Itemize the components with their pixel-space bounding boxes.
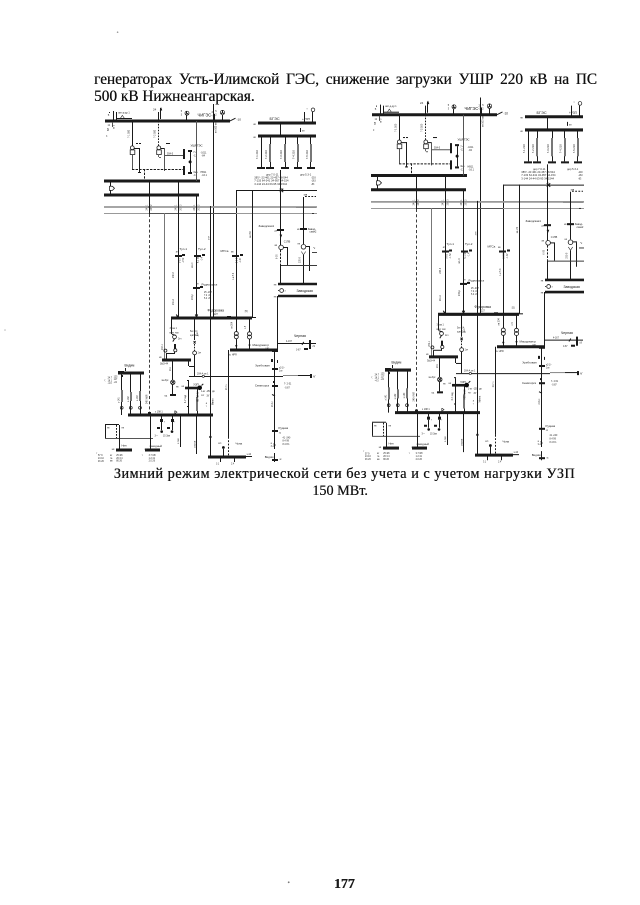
paragraph text line 1 — [94, 72, 597, 87]
right diagram: winter regime with УЗП 150 MW load — [363, 98, 584, 464]
scan speck left margin — [4, 329, 6, 331]
scan speck top — [117, 31, 119, 33]
paragraph text line 2 — [94, 89, 255, 104]
figure caption line 1 — [114, 467, 575, 481]
figure caption line 2 — [312, 484, 368, 498]
left diagram: winter regime without УЗП load — [96, 104, 317, 466]
page number — [334, 877, 355, 891]
scan speck near page number — [288, 881, 290, 883]
